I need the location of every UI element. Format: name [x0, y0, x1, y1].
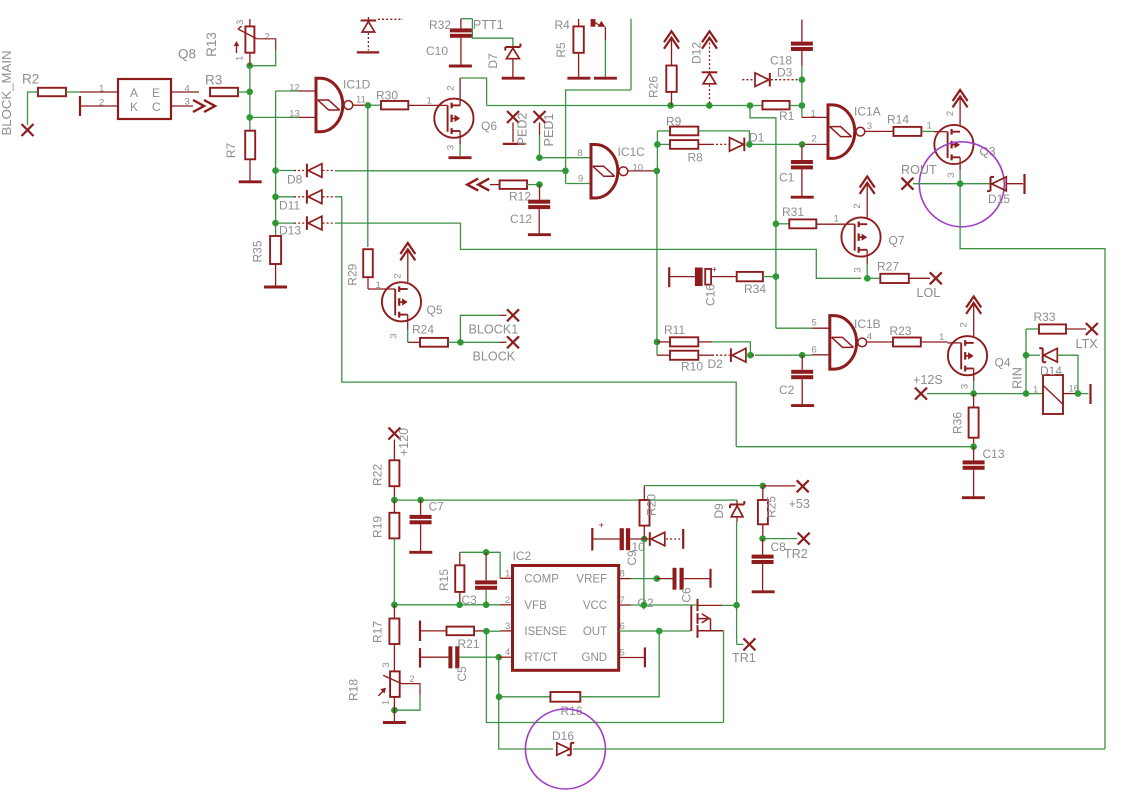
ground below C13: [962, 496, 985, 499]
svg-text:R2: R2: [22, 71, 39, 86]
net flag PED1: [534, 111, 546, 123]
wire +53 rail: [644, 485, 763, 487]
svg-text:PED1: PED1: [542, 114, 556, 147]
terminal bar GND pin5: [644, 647, 646, 667]
junction R11 left: [654, 339, 661, 346]
resistor R30: [368, 104, 381, 106]
svg-text:PTT1: PTT1: [473, 18, 504, 32]
diode D8: [276, 170, 295, 172]
polarized capacitor C16: [695, 268, 703, 287]
capacitor C13: [973, 447, 975, 461]
junction node R13-R3: [246, 62, 253, 69]
svg-text:D3: D3: [777, 65, 793, 79]
resistor R33: [1026, 328, 1039, 330]
junction R18 pin1: [391, 707, 398, 714]
resistor R36: [973, 394, 975, 408]
wire D15 to tbar: [1006, 183, 1023, 185]
wire R12 to node: [527, 184, 539, 186]
dashed line from D6: [378, 18, 403, 20]
svg-text:6: 6: [812, 345, 817, 356]
wire D9 down to VCC node: [736, 517, 738, 522]
svg-text:D15: D15: [988, 192, 1010, 206]
net flag PED2: [507, 111, 519, 123]
svg-text:1: 1: [234, 56, 245, 61]
capacitor C12: [539, 185, 541, 200]
svg-text:R31: R31: [782, 205, 804, 219]
wire RIN column: [1025, 329, 1027, 394]
resistor R22: [393, 440, 395, 461]
svg-text:R22: R22: [371, 464, 385, 486]
svg-text:3: 3: [185, 97, 190, 108]
svg-text:D9: D9: [712, 503, 726, 519]
svg-text:8: 8: [620, 569, 625, 580]
wire R27 to LOL: [909, 277, 930, 279]
svg-text:C6: C6: [680, 587, 694, 603]
mosfet Q4: [948, 336, 987, 375]
svg-text:VREF: VREF: [576, 573, 607, 585]
terminal bar D10 right: [682, 529, 684, 549]
resistor R2: [38, 88, 66, 96]
wire C3 to VFB row: [485, 590, 487, 605]
ground below C12: [528, 233, 551, 236]
wire C18 to node: [801, 51, 803, 66]
svg-text:LTX: LTX: [1076, 337, 1099, 351]
wire C6 to tbar: [684, 578, 711, 580]
ground below C10: [449, 65, 472, 68]
svg-text:2: 2: [99, 98, 104, 109]
junction D3 C18: [799, 76, 806, 83]
IC1B pin5 wire: [776, 327, 812, 329]
net flag LOL X: [930, 272, 942, 284]
junction bus R1 left: [747, 102, 754, 109]
svg-text:R29: R29: [346, 263, 360, 285]
svg-text:RIN: RIN: [1011, 367, 1025, 389]
junction D1: [746, 141, 753, 148]
svg-text:R17: R17: [371, 621, 385, 643]
Q5 source pin 3: [407, 315, 409, 329]
Q4 source pin 3: [973, 369, 975, 382]
capacitor C7: [420, 500, 422, 515]
wire R29 to Q5 gate: [367, 277, 369, 289]
capacitor C3: [485, 552, 487, 580]
diode D6 vertical: [361, 20, 377, 22]
svg-text:1: 1: [939, 332, 944, 343]
svg-text:11: 11: [356, 95, 366, 106]
zener diode D15: [990, 177, 992, 191]
junction RT/CT: [495, 654, 502, 661]
svg-text:C5: C5: [455, 666, 469, 682]
purple circle around D16: [525, 709, 605, 789]
wire Q2 drain: [698, 604, 723, 606]
svg-text:R9: R9: [666, 115, 682, 129]
wire node to pin12 column: [249, 53, 251, 66]
resistor R21: [420, 630, 447, 632]
resistor R12: [490, 184, 500, 186]
wire R4 to ground: [578, 53, 580, 77]
wire C13 to ground: [973, 470, 975, 497]
capacitor C6: [657, 578, 673, 580]
svg-text:R5: R5: [554, 42, 568, 58]
wire ISENSE pin3: [486, 630, 500, 632]
svg-text:10: 10: [633, 162, 644, 173]
svg-text:Q4: Q4: [995, 356, 1011, 370]
resistor R14: [894, 127, 922, 136]
wire R11 R10 link: [656, 342, 658, 355]
svg-text:R35: R35: [251, 240, 265, 262]
svg-text:12: 12: [289, 83, 300, 94]
IC1D pin12 wire: [299, 90, 316, 92]
wire D14 loop: [1057, 355, 1078, 393]
junction ISENSE: [483, 628, 490, 635]
resistor R34: [711, 276, 737, 278]
Q8 pin4 wire: [171, 91, 199, 93]
svg-text:C10: C10: [426, 44, 448, 58]
wire C1 to ground: [801, 169, 803, 196]
junction VCC column: [641, 602, 648, 609]
svg-text:R7: R7: [224, 143, 238, 159]
ground below C2: [791, 404, 814, 407]
resistor R11: [657, 341, 670, 343]
resistor R23: [893, 338, 921, 347]
diode D10: [630, 538, 649, 540]
svg-text:1: 1: [811, 109, 816, 120]
wire RT/CT pin4: [499, 656, 513, 658]
wire Q2 source loop: [723, 631, 725, 723]
ground below R4: [567, 77, 590, 80]
junction D8: [272, 167, 279, 174]
net flag +53 X: [797, 480, 809, 492]
supply arrow D12: [702, 31, 717, 42]
junction R12 C12: [536, 181, 543, 188]
svg-text:TR1: TR1: [732, 651, 756, 665]
wire R3 to node: [238, 91, 250, 93]
photo arrow symbol: [591, 19, 596, 27]
net PTT1 wire: [461, 18, 473, 20]
transistor Q2: [690, 605, 692, 631]
net flag LTX X: [1086, 323, 1098, 335]
junction VFB R15: [456, 602, 463, 609]
wire Q6 drain loop: [460, 78, 487, 106]
svg-text:R10: R10: [681, 360, 703, 374]
svg-text:7: 7: [620, 595, 625, 606]
terminal bar C9 left: [591, 528, 593, 551]
svg-text:1: 1: [1033, 385, 1038, 396]
svg-text:+12S: +12S: [913, 373, 943, 387]
wire stub top vertical: [630, 19, 632, 90]
svg-text:C2: C2: [779, 383, 795, 397]
wire IC1C output down: [656, 171, 658, 342]
resistor R35: [275, 223, 277, 236]
svg-text:2: 2: [812, 134, 817, 145]
wire IC1A pin1: [801, 106, 803, 118]
ic IC2 box: [513, 566, 619, 671]
svg-text:BLOCK_MAIN: BLOCK_MAIN: [0, 50, 14, 135]
svg-text:D14: D14: [1040, 364, 1062, 378]
terminal bar relay: [1089, 384, 1091, 404]
svg-text:+: +: [712, 264, 717, 274]
resistor R9: [657, 130, 670, 132]
polarized capacitor C9: [620, 528, 624, 550]
junction IC1D output: [365, 102, 372, 109]
resistor R16: [499, 696, 550, 698]
resistor R27: [867, 277, 880, 279]
svg-text:2: 2: [945, 111, 956, 116]
svg-text:IC1B: IC1B: [854, 317, 881, 331]
wire TR1 branch: [736, 605, 738, 644]
nand gate IC1B: [830, 316, 857, 370]
svg-text:TR2: TR2: [784, 547, 808, 561]
resistor R10: [670, 351, 698, 360]
svg-text:R32: R32: [429, 18, 451, 32]
svg-text:4: 4: [185, 84, 190, 95]
svg-text:R18: R18: [347, 679, 361, 701]
wire D8 row: [335, 170, 566, 172]
svg-text:8: 8: [578, 148, 583, 159]
ground below C7: [409, 551, 432, 554]
wire D16 row: [573, 748, 1105, 750]
svg-text:3: 3: [505, 621, 510, 632]
trimmer R18: [390, 671, 400, 697]
wire bus jog to IC1B column: [750, 106, 776, 329]
diode D13: [276, 222, 295, 224]
svg-text:R34: R34: [744, 282, 766, 296]
junction Q2 drain: [733, 602, 740, 609]
net flag +12S X: [915, 388, 927, 400]
wire tbar to C9: [592, 538, 619, 540]
svg-text:2: 2: [959, 322, 970, 327]
junction C3 top: [483, 549, 490, 556]
nand gate IC1C: [591, 145, 618, 199]
junction relay pin1: [1023, 390, 1030, 397]
bar below diode D6: [357, 51, 379, 53]
svg-text:10: 10: [632, 540, 646, 554]
wire relay pin16: [1063, 393, 1078, 395]
svg-text:ISENSE: ISENSE: [524, 626, 567, 638]
svg-text:IC1C: IC1C: [618, 145, 646, 159]
svg-text:6: 6: [620, 621, 625, 632]
svg-text:1: 1: [834, 214, 839, 225]
svg-text:VFB: VFB: [524, 600, 547, 612]
junction Q3 source: [957, 180, 964, 187]
IC1D output pin 11: [353, 104, 368, 106]
wire D2 row to pin6: [752, 354, 757, 356]
svg-text:3: 3: [853, 267, 864, 272]
svg-text:BLOCK1: BLOCK1: [469, 323, 519, 337]
wire pin8 node to gate: [540, 157, 592, 159]
wire R30 to Q6 gate: [408, 104, 447, 106]
wire vertical to pin9: [565, 106, 567, 171]
wire RT/CT column: [499, 657, 553, 749]
resistor R26: [666, 66, 676, 92]
net flag +120 X: [388, 428, 400, 440]
junction pin8 node: [536, 154, 543, 161]
svg-text:C1: C1: [779, 171, 795, 185]
svg-text:2: 2: [852, 203, 863, 208]
svg-text:Q6: Q6: [481, 119, 497, 133]
capacitor C8: [762, 539, 764, 555]
junction D14 left: [1023, 352, 1030, 359]
Q8 pin2 bar and wire: [79, 96, 81, 116]
Q8 pin3 wire with arrows: [171, 105, 193, 107]
supply arrow Q4: [966, 297, 981, 308]
wire +120 rail: [394, 499, 737, 501]
svg-text:R14: R14: [887, 113, 909, 127]
svg-text:1: 1: [505, 569, 510, 580]
wire C10 to ground: [460, 38, 462, 65]
wire GND pin5: [619, 657, 645, 659]
wire main bus: [487, 105, 750, 107]
svg-text:R13: R13: [204, 32, 219, 57]
diode D11: [276, 196, 295, 198]
svg-text:R23: R23: [890, 324, 912, 338]
svg-text:9: 9: [578, 174, 583, 185]
wire +53 to X: [763, 485, 796, 487]
svg-text:GND: GND: [582, 652, 608, 664]
wire photo arrow to ground: [604, 27, 606, 40]
svg-text:Q8: Q8: [178, 47, 196, 62]
zener diode D9: [736, 500, 738, 504]
wire OUT pin6: [619, 630, 691, 632]
optocoupler Q8 box: [118, 79, 171, 119]
resistor R4 R5: [578, 19, 580, 26]
svg-text:VCC: VCC: [583, 600, 607, 612]
svg-text:3: 3: [867, 121, 872, 132]
junction bus R1 right: [799, 102, 806, 109]
wire R18 pin2 loop: [402, 684, 420, 695]
wire R14 to Q3 gate: [921, 130, 934, 132]
junction C7 top: [417, 497, 424, 504]
svg-text:R11: R11: [664, 323, 685, 337]
svg-text:3: 3: [960, 384, 971, 389]
svg-text:4: 4: [867, 332, 872, 343]
IC1C output pin 10: [628, 170, 657, 172]
junction D2 out: [747, 352, 754, 359]
mosfet Q3: [934, 125, 973, 164]
terminal bar R21: [419, 621, 421, 642]
resistor R31: [776, 223, 789, 225]
svg-text:C: C: [152, 100, 161, 114]
svg-text:RT/CT: RT/CT: [524, 652, 558, 664]
IC1A pin2 wire: [802, 143, 828, 145]
Q6 source pin 3: [459, 131, 461, 144]
resistor R8: [657, 143, 670, 145]
svg-text:IC1A: IC1A: [854, 105, 881, 119]
diode D3: [742, 79, 754, 81]
wire C5 to pin4: [459, 656, 498, 658]
svg-text:D16: D16: [552, 729, 574, 743]
Q3 source pin 3: [959, 157, 961, 170]
svg-text:R25: R25: [765, 496, 779, 518]
junction Q7 source: [864, 275, 871, 282]
svg-text:4: 4: [505, 647, 510, 658]
svg-text:COMP: COMP: [524, 573, 559, 585]
svg-text:R1: R1: [779, 109, 795, 123]
IC1B output pin 4: [866, 341, 893, 343]
svg-text:D7: D7: [486, 53, 500, 69]
nand gate IC1A: [828, 105, 855, 158]
junction bus R26: [667, 102, 674, 109]
svg-text:C7: C7: [429, 500, 445, 514]
net flag BLOCK X: [507, 336, 519, 348]
junction BLOCK node: [457, 339, 464, 346]
wire BLOCK_MAIN to R2: [28, 92, 39, 125]
net flag TR1 X: [743, 638, 755, 650]
wire R2 to Q8 pin1: [66, 91, 80, 93]
wire D1 row to pin2: [749, 143, 802, 145]
resistor R7: [245, 131, 255, 160]
wire COMP pin1: [460, 552, 500, 578]
wire VREF pin8: [619, 578, 631, 580]
ground below C8: [752, 590, 775, 593]
svg-text:3: 3: [446, 145, 457, 150]
terminal bar C6: [709, 569, 711, 588]
svg-text:5: 5: [812, 318, 817, 329]
junction OUT R16: [656, 628, 663, 635]
svg-text:R26: R26: [647, 76, 661, 98]
svg-text:2: 2: [265, 32, 270, 43]
mosfet Q5: [382, 282, 421, 321]
wire VCC to C9 node: [643, 539, 645, 605]
resistor R20: [643, 486, 645, 500]
junction C1 pin2: [799, 141, 806, 148]
wire R18 to ground: [393, 697, 395, 721]
svg-text:+53: +53: [789, 497, 810, 511]
svg-text:C12: C12: [510, 212, 532, 226]
svg-text:R19: R19: [371, 516, 385, 538]
svg-text:Q5: Q5: [427, 303, 443, 317]
ground below D7: [502, 77, 525, 80]
svg-text:R8: R8: [688, 151, 704, 165]
resistor R3: [210, 88, 238, 96]
svg-text:C16: C16: [704, 284, 718, 306]
junction pin13 node: [246, 114, 253, 121]
svg-text:2: 2: [446, 85, 457, 90]
wire R26 to bus: [671, 92, 673, 106]
supply arrow Q7: [860, 177, 875, 188]
svg-text:R33: R33: [1034, 310, 1056, 324]
wire +12S row: [927, 393, 1043, 395]
junction C9 R20: [641, 536, 648, 543]
diode D1: [698, 143, 712, 145]
wire tbar to C16: [669, 276, 695, 278]
svg-text:Q7: Q7: [889, 234, 905, 248]
diode D12: [709, 39, 711, 72]
resistor R25: [762, 486, 764, 500]
svg-text:BLOCK: BLOCK: [473, 349, 516, 363]
wire R9 R8 left column: [656, 131, 658, 171]
junction R8 left: [654, 141, 661, 148]
junction Q4 source: [970, 390, 977, 397]
wire C8 node to TR2: [763, 538, 797, 540]
svg-text:+: +: [597, 522, 607, 527]
terminal bar C5: [419, 648, 421, 668]
wire BLOCK1: [460, 315, 499, 342]
wire D11 net to C13: [736, 446, 973, 448]
svg-text:R21: R21: [458, 637, 480, 651]
wire pin12 column: [275, 91, 277, 223]
wire R13 pin2 loop: [257, 39, 276, 50]
junction R22 R19: [391, 497, 398, 504]
net flag ROUT X: [901, 178, 913, 190]
trimmer R13: [249, 19, 251, 26]
svg-text:2: 2: [393, 273, 404, 278]
junction R16 left: [496, 694, 503, 701]
nand gate IC1D: [316, 78, 343, 132]
svg-text:2: 2: [505, 595, 510, 606]
svg-text:R24: R24: [412, 323, 434, 337]
IC1D pin13 wire: [299, 116, 316, 118]
svg-text:LOL: LOL: [917, 286, 941, 300]
